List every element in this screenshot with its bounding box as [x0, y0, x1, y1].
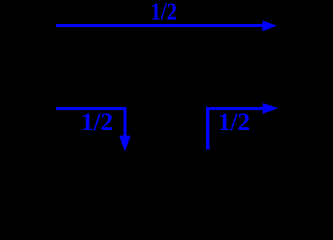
wire right elbow vertical: [206, 107, 209, 149]
top arrow head: [262, 21, 277, 32]
left elbow arrow head (down): [119, 136, 130, 152]
wire left elbow vertical: [123, 107, 126, 137]
right elbow arrow head (right): [263, 103, 279, 114]
svg-text:1/2: 1/2: [151, 0, 178, 26]
svg-text:1/2: 1/2: [81, 107, 113, 136]
wire right elbow horizontal: [206, 107, 264, 110]
svg-text:1/2: 1/2: [218, 107, 250, 136]
wire left elbow horizontal: [56, 107, 127, 110]
wire top arrow shaft: [56, 24, 264, 27]
